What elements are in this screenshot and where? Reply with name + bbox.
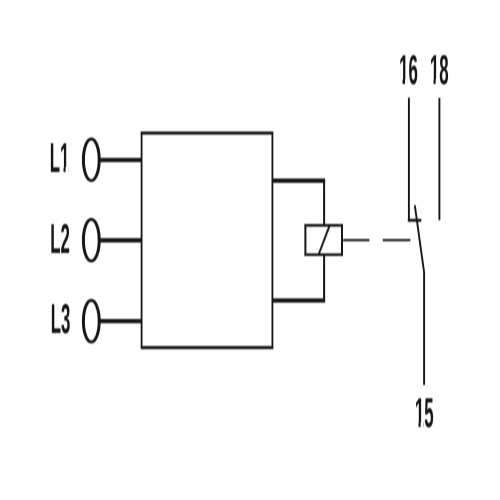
svg-text:15: 15: [415, 389, 434, 436]
svg-text:L1: L1: [50, 134, 70, 181]
svg-text:16: 16: [399, 46, 418, 93]
svg-text:L2: L2: [50, 215, 70, 262]
svg-text:L3: L3: [51, 295, 71, 342]
svg-text:18: 18: [430, 46, 449, 93]
